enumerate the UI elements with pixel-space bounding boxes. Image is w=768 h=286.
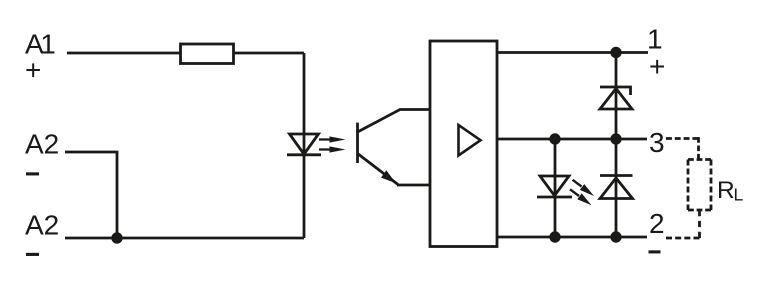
terminal label A2 (bottom)	[25, 210, 59, 241]
dashed wire terminal 3 to load	[666, 137, 699, 159]
wire output 2	[497, 236, 647, 239]
node output1/zener	[610, 47, 621, 58]
node output2/diode	[610, 231, 621, 242]
load resistor RL (dashed)	[688, 160, 711, 211]
terminal label 3	[649, 127, 665, 158]
wire branch x555	[554, 139, 557, 237]
label RL	[717, 177, 744, 205]
svg-text:1: 1	[647, 24, 663, 55]
svg-text:A2: A2	[25, 210, 59, 241]
polarity + (right)	[649, 51, 665, 82]
svg-text:+: +	[25, 55, 41, 86]
terminal label 1	[647, 24, 663, 55]
wire resistor to riser	[234, 52, 304, 55]
dashed wire load to terminal 2	[666, 210, 700, 238]
svg-text:2: 2	[649, 208, 665, 239]
node output3/zener	[610, 133, 621, 144]
wire output 1	[497, 51, 648, 54]
svg-text:3: 3	[649, 127, 665, 158]
node output3/led	[549, 133, 560, 144]
amplifier box U1	[430, 41, 497, 247]
wire branch x616	[615, 53, 618, 238]
svg-text:A2: A2	[25, 128, 59, 159]
polarity - (right)	[649, 250, 661, 253]
zener diode D2	[600, 87, 632, 109]
terminal label 2	[649, 208, 665, 239]
polarity - (middle left)	[26, 172, 39, 175]
wire riser input	[303, 53, 306, 238]
wire A2 bottom	[65, 237, 304, 240]
node output2/led	[549, 231, 560, 242]
terminal label A2 (middle)	[25, 128, 59, 159]
terminal label A1	[25, 28, 56, 59]
svg-text:+: +	[649, 51, 665, 82]
svg-text:R: R	[717, 177, 735, 204]
light arrows of status LED	[570, 180, 594, 206]
polarity - (bottom left)	[26, 253, 39, 256]
phototransistor Q1	[358, 110, 431, 186]
resistor R1	[181, 44, 234, 64]
optocoupler LED D1	[287, 134, 321, 155]
wire A1 to resistor	[67, 52, 180, 55]
wire output 3	[497, 138, 647, 141]
svg-text:L: L	[734, 185, 744, 205]
light arrows to phototransistor	[319, 136, 346, 152]
polarity + (left)	[25, 55, 41, 86]
amplifier triangle	[459, 125, 481, 156]
wire A2 middle	[65, 152, 117, 238]
protection diode D4	[600, 176, 633, 199]
node junction A2	[111, 232, 122, 243]
status LED D3	[537, 176, 572, 197]
